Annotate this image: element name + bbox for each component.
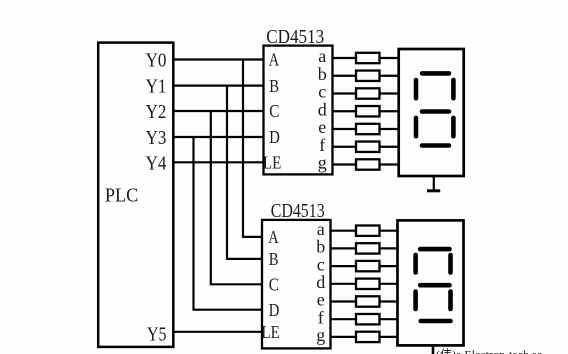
svg-text:A: A [268,227,278,247]
wire Y2 branch to U2 pin C [211,111,262,284]
display DS1 body [399,49,464,176]
svg-text:D: D [269,127,280,147]
wire U2 pin g to R14 [331,336,357,338]
wire DS2 common to ground (cut off) [432,345,435,354]
svg-text:g: g [318,153,327,173]
wire U2 pin f to R13 [331,318,357,320]
wire Y0 branch to U2 pin A [243,60,262,237]
svg-text:CD4513: CD4513 [266,26,324,48]
resistor R11 [356,279,380,289]
svg-text:LE: LE [261,322,279,342]
svg-text:Y4: Y4 [146,152,167,174]
DS2 segment a [420,247,449,252]
resistor R13 [356,314,380,324]
wire Y3 branch to U2 pin D [194,137,263,310]
svg-text:Y2: Y2 [146,101,167,123]
DS1 segment e [414,118,419,136]
wire Y5 to U2 pin LE [173,331,262,333]
svg-text:g: g [316,325,325,345]
wire R12 to DS2 segment e [380,300,398,302]
svg-text:C: C [269,275,279,295]
wire R7 to DS1 segment g [380,163,399,165]
DS2 segment c [448,292,453,310]
svg-text:B: B [269,76,279,96]
svg-text:A: A [269,50,279,70]
wire U2 pin c to R10 [331,265,357,267]
resistor R3 [356,88,380,98]
DS1 segment b [451,80,456,98]
wire R1 to DS1 segment a [380,57,399,59]
wire Y4 to U1 pin LE [173,161,263,163]
wire U2 pin e to R12 [331,300,357,302]
svg-text:C: C [269,101,279,121]
wire R6 to DS1 segment f [380,146,399,148]
wire R2 to DS1 segment b [380,75,399,77]
wire U1 pin e to R5 [333,128,357,130]
resistor R10 [356,261,380,271]
resistor R14 [356,332,380,342]
DS2 segment f [413,255,418,273]
wire R4 to DS1 segment d [380,110,399,112]
svg-text:(伟)a Electron-tech so: (伟)a Electron-tech so [436,348,543,354]
wire Y3 to U1 pin D [173,136,263,138]
wire U1 pin b to R2 [333,75,357,77]
DS1 segment d [422,143,449,148]
svg-text:B: B [269,249,279,269]
resistor R8 [356,226,380,236]
resistor R9 [356,243,380,253]
wire R5 to DS1 segment e [380,128,399,130]
svg-text:D: D [269,300,280,320]
resistor R2 [356,71,380,81]
IC U1 CD4513 body [264,46,333,175]
svg-text:Y3: Y3 [146,127,167,149]
DS2 segment b [448,255,453,273]
svg-text:LE: LE [263,153,281,173]
ground symbol [427,189,440,192]
wire Y1 to U1 pin B [173,84,263,86]
DS2 segment e [413,292,418,310]
wire U1 pin c to R3 [333,92,357,94]
DS1 segment f [414,80,419,98]
DS2 segment g [420,283,449,288]
wire R13 to DS2 segment f [380,318,398,320]
PLC box [98,43,173,347]
wire U1 pin g to R7 [333,163,357,165]
DS1 segment a [422,71,449,76]
wire R3 to DS1 segment c [380,92,399,94]
wire R11 to DS2 segment d [380,283,398,285]
resistor R5 [356,124,380,134]
wire R14 to DS2 segment g [380,336,398,338]
wire R8 to DS2 segment a [380,230,398,232]
svg-text:PLC: PLC [105,185,138,207]
DS2 segment d [421,319,451,324]
resistor R6 [356,142,380,152]
wire DS1 common to ground [433,176,435,190]
wire U1 pin d to R4 [333,110,357,112]
wire U2 pin b to R9 [331,247,357,249]
wire U1 pin f to R6 [333,146,357,148]
DS1 segment g [422,109,449,114]
wire U2 pin a to R8 [331,230,357,232]
resistor R4 [356,106,380,116]
DS1 segment c [451,118,456,136]
wire R9 to DS2 segment b [380,247,398,249]
resistor R1 [356,53,380,63]
svg-text:Y5: Y5 [147,323,167,345]
svg-text:Y1: Y1 [146,76,167,98]
wire Y0 to U1 pin A [173,58,263,60]
resistor R12 [356,296,380,306]
wire Y1 branch to U2 pin B [227,86,262,259]
wire R10 to DS2 segment c [380,265,398,267]
wire U1 pin a to R1 [333,57,357,59]
wire U2 pin d to R11 [331,283,357,285]
wire Y2 to U1 pin C [173,110,263,112]
resistor R7 [356,159,380,169]
display DS2 body [398,220,464,345]
svg-text:Y0: Y0 [146,50,167,72]
IC U2 CD4513 body [262,220,331,349]
